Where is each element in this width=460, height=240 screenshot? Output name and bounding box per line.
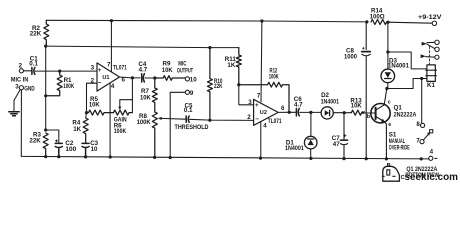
node bias divider junction: [44, 45, 47, 48]
terminal 3 GND: [19, 86, 23, 90]
node junction C7 R13: [343, 111, 346, 114]
svg-text:U1: U1: [102, 75, 109, 81]
svg-text:100K: 100K: [269, 73, 279, 80]
terminal 4: [429, 156, 433, 160]
svg-text:2N2222A: 2N2222A: [394, 112, 417, 119]
transistor bottom view outline: [383, 166, 400, 181]
node junction feedback: [85, 111, 88, 114]
node junction top rail at U1 pin7: [110, 19, 113, 22]
wire R4 top: [85, 113, 88, 118]
potentiometer R6: [114, 110, 133, 115]
svg-text:Q1: Q1: [394, 105, 403, 112]
relay contact pole 1: [422, 42, 427, 46]
resistor R12: [239, 82, 289, 112]
node junction R14 right: [386, 21, 389, 24]
resistor R7: [152, 78, 157, 112]
node junction D1 ground: [309, 157, 312, 160]
svg-text:−: −: [98, 80, 102, 87]
svg-text:B: B: [387, 163, 391, 169]
svg-text:100Ω: 100Ω: [370, 14, 385, 21]
svg-text:c: c: [388, 99, 391, 105]
svg-text:100K: 100K: [137, 119, 151, 126]
svg-text:TL071: TL071: [113, 64, 127, 71]
svg-text:7: 7: [107, 62, 111, 69]
svg-text:4: 4: [430, 148, 434, 155]
svg-text:10K: 10K: [162, 67, 173, 74]
svg-text:22K: 22K: [214, 83, 223, 90]
ground chassis symbol: [9, 112, 19, 116]
wire U2 output: [278, 111, 311, 113]
wiper arrow R6: [118, 107, 121, 110]
node junction R10 bottom: [208, 119, 211, 122]
resistor R5: [87, 110, 114, 115]
svg-text:10K: 10K: [89, 102, 100, 109]
svg-text:3: 3: [15, 83, 19, 90]
capacitor C7: [340, 113, 347, 159]
svg-text:2: 2: [91, 77, 95, 84]
potentiometer R8: [152, 112, 157, 157]
node junction R3 C2 top: [44, 128, 47, 131]
capacitor C4: [142, 74, 145, 82]
terminal 8: [421, 123, 425, 127]
node junction C2 ground: [57, 155, 60, 158]
capacitor C5: [186, 116, 189, 122]
svg-text:GND: GND: [24, 86, 35, 93]
wire U2 pin7 supply: [260, 21, 263, 102]
capacitor C2: [55, 143, 62, 156]
wiper arrow R8: [158, 117, 162, 120]
switch S1 blade: [423, 134, 428, 140]
node junction U2 pin4 ground: [259, 157, 262, 160]
svg-text:e: e: [388, 122, 391, 128]
svg-text:OVER-RIDE: OVER-RIDE: [389, 145, 410, 152]
node junction D1 D2: [309, 111, 312, 114]
relay contact pole 2: [421, 54, 426, 58]
wire top supply rail: [46, 20, 432, 23]
op-amp U1: [97, 63, 120, 91]
node junction R3 ground: [44, 155, 47, 158]
wire U1 pin4 ground: [109, 84, 111, 158]
terminal +9-12V: [432, 21, 436, 25]
resistor R9: [155, 76, 185, 81]
svg-text:4.7: 4.7: [294, 102, 303, 109]
svg-text:7: 7: [416, 137, 420, 144]
node junction Q1 collector: [385, 87, 388, 90]
wire gnd terminal to ground rail: [20, 90, 22, 157]
svg-text:3: 3: [91, 65, 95, 72]
terminal 9: [185, 90, 189, 94]
node junction R1 bottom: [44, 94, 47, 97]
wire collector to relay bottom: [387, 79, 427, 89]
svg-text:1K: 1K: [73, 126, 81, 133]
diode D3: [387, 52, 389, 69]
wire ground rail: [21, 156, 428, 159]
svg-text:0.1: 0.1: [29, 61, 38, 68]
svg-text:1N4001: 1N4001: [321, 99, 340, 106]
svg-text:1K: 1K: [227, 62, 235, 69]
relay coil K1: [427, 65, 435, 82]
svg-text:10: 10: [91, 146, 98, 153]
wire terminal 9 to ground: [170, 92, 185, 157]
diode D2: [311, 111, 321, 113]
svg-text:1000: 1000: [344, 53, 358, 60]
svg-text:K1: K1: [427, 82, 435, 89]
resistor R11: [236, 48, 241, 85]
resistor R4: [83, 118, 88, 143]
wire R6 to U1 output: [131, 78, 133, 100]
node junction C3 ground: [84, 155, 87, 158]
svg-text:47: 47: [333, 141, 340, 148]
wire U1 output: [120, 77, 155, 78]
svg-text:U2: U2: [260, 110, 267, 116]
terminal 2 MIC IN: [19, 69, 23, 73]
node junction ground rail S1: [420, 157, 423, 160]
wire U1 pin7 supply: [110, 21, 112, 72]
node junction R12 output: [288, 111, 291, 114]
svg-text:4: 4: [263, 122, 267, 129]
svg-text:100K: 100K: [63, 83, 74, 90]
polarity plus C7: [344, 135, 346, 137]
relay linkage dashed: [428, 47, 430, 65]
svg-text:2: 2: [19, 63, 23, 70]
capacitor C3: [82, 143, 89, 156]
svg-text:1N4001: 1N4001: [285, 145, 304, 152]
node junction C7 ground: [342, 157, 345, 160]
polarity plus C2: [55, 140, 57, 142]
svg-text:9: 9: [190, 90, 194, 97]
wire C2 branch: [46, 130, 59, 143]
svg-text:4: 4: [111, 83, 115, 90]
svg-text:0.1: 0.1: [184, 107, 193, 114]
svg-text:TL071: TL071: [268, 118, 282, 125]
node junction Q1 emitter ground: [385, 157, 388, 160]
svg-text:10K: 10K: [140, 94, 151, 101]
svg-text:−: −: [255, 116, 259, 123]
node junction R10 top: [208, 46, 211, 49]
svg-text:OUTPUT: OUTPUT: [177, 67, 193, 74]
svg-text:BOTTOM VIEW: BOTTOM VIEW: [405, 172, 439, 179]
wire U2 pin4 ground: [260, 122, 262, 158]
wire U1 pin2 feedback: [87, 83, 98, 112]
node junction R8 ground: [153, 156, 156, 159]
svg-text:7: 7: [257, 93, 261, 100]
op-amp U2: [254, 99, 279, 125]
resistor R2: [44, 20, 49, 46]
resistor R13: [351, 110, 364, 115]
resistor R3: [43, 133, 48, 157]
capacitor C8: [362, 22, 371, 159]
node junction U1 output: [131, 76, 134, 79]
wire D3 node to relay top: [388, 52, 427, 69]
node junction U2 pin3: [237, 83, 240, 86]
wire R6 wiper strap: [120, 100, 133, 113]
svg-text:4.7: 4.7: [139, 67, 148, 74]
wire threshold: [161, 118, 254, 120]
svg-text:+9-12V: +9-12V: [418, 14, 443, 21]
wire bias column: [45, 46, 47, 130]
node junction D3 top: [386, 50, 389, 53]
resistor R10: [207, 48, 212, 121]
svg-text:MIC IN: MIC IN: [11, 76, 29, 83]
svg-text:8: 8: [416, 121, 420, 128]
svg-text:b: b: [367, 114, 371, 120]
node junction C8 ground: [365, 157, 368, 160]
svg-text:2: 2: [247, 114, 251, 121]
node junction U1 pin4 ground: [109, 155, 112, 158]
svg-text:100K: 100K: [114, 128, 127, 135]
resistor R14: [371, 20, 387, 25]
terminal 7: [420, 140, 424, 144]
capacitor C6: [296, 108, 299, 116]
svg-text:100: 100: [65, 146, 76, 153]
svg-text:6: 6: [281, 105, 285, 112]
resistor R1: [46, 71, 63, 96]
wire supply to D3: [387, 22, 389, 52]
svg-text:10: 10: [190, 76, 197, 83]
switch S1 contact: [430, 130, 433, 133]
wire gnd diagonal: [14, 90, 20, 112]
node junction R1 top: [58, 70, 61, 73]
wire S1 column: [421, 79, 423, 124]
node junction top rail at U2 pin7: [260, 19, 263, 22]
wire R13 to Q1 base: [362, 112, 375, 114]
svg-text:22K: 22K: [29, 138, 41, 145]
svg-text:22K: 22K: [30, 30, 42, 37]
emitter arrow Q1: [381, 119, 385, 123]
svg-text:+: +: [98, 67, 102, 74]
transistor Q1: [371, 104, 390, 123]
node junction S1 branch: [420, 77, 423, 80]
svg-text:1N4001: 1N4001: [388, 63, 409, 70]
terminal 10 MIC OUTPUT: [185, 77, 189, 81]
svg-text:10K: 10K: [351, 103, 362, 110]
wire bias rail: [46, 46, 239, 48]
svg-text:THRESHOLD: THRESHOLD: [175, 124, 209, 131]
node junction term9 ground: [169, 156, 172, 159]
node junction R7 top: [153, 76, 156, 79]
node junction R14 left: [365, 20, 368, 23]
svg-text:+: +: [255, 102, 259, 109]
wire U2 pin3: [239, 85, 254, 105]
svg-text:3: 3: [248, 99, 252, 106]
wire mic input: [24, 70, 98, 72]
svg-text:6: 6: [122, 77, 126, 84]
capacitor C1: [32, 67, 35, 74]
diode D1: [310, 112, 312, 136]
